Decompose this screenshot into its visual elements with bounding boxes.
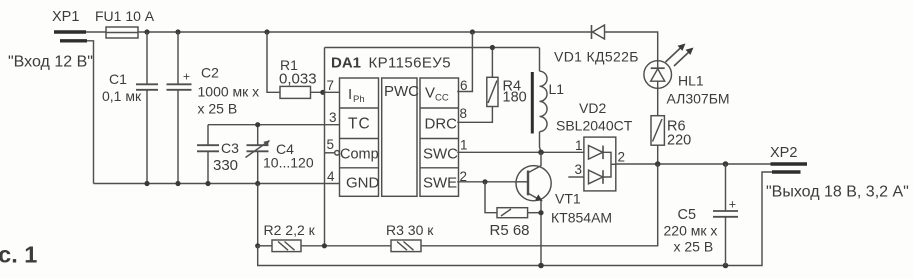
svg-text:3: 3 [575,162,583,177]
connector XP1 [52,9,87,41]
svg-text:КТ854АМ: КТ854АМ [551,210,612,226]
transistor Q1 : VT1 KT854AM [516,152,612,265]
svg-text:8: 8 [460,106,468,121]
svg-text:0,033: 0,033 [279,71,317,88]
svg-text:6: 6 [460,78,468,93]
wire VD1 to HL1 [605,32,658,61]
node top rail / C1 [144,29,149,34]
node mid rail / C2 [175,181,180,186]
svg-text:"Вход 12 В": "Вход 12 В" [8,54,93,71]
node emitter / R5 [538,210,543,215]
svg-text:"Выход 18 В, 3,2 А": "Выход 18 В, 3,2 А" [766,184,909,201]
svg-text:R2 2,2 к: R2 2,2 к [264,222,316,238]
resistor R4 [487,77,527,106]
svg-text:+: + [183,70,190,84]
svg-text:V: V [425,85,435,102]
svg-text:3: 3 [329,110,337,125]
svg-text:R3 30 к: R3 30 к [386,222,434,238]
fuse FU1 10 A [95,8,155,38]
node bottom rail / emitter [538,263,544,269]
node top rail / C2 [175,29,180,34]
wire supply line to L1 [539,48,541,72]
node output / R6 [655,161,661,167]
svg-text:1: 1 [460,138,468,153]
svg-text:ХР1: ХР1 [52,9,79,25]
svg-text:2: 2 [618,150,626,165]
wire SWE pin 2 to VT1 base [457,181,516,183]
DA1 left cell column [340,78,380,196]
svg-text:0,1 мк: 0,1 мк [102,88,142,104]
svg-text:СС: СС [435,93,449,104]
wire R3 to output feedback [421,164,658,246]
svg-text:1000 мк х: 1000 мк х [198,84,260,100]
svg-text:FU1 10 А: FU1 10 А [95,8,155,24]
svg-text:SWC: SWC [423,146,458,163]
svg-text:КР1156ЕУ5: КР1156ЕУ5 [369,55,451,72]
wire pin 3 TC to C3/C4 [208,124,340,126]
resistor R2 [258,222,316,252]
diode VD1 KD522B [554,25,639,65]
wire Vcc pin 6 to +12V rail [457,32,472,92]
svg-text:L1: L1 [549,81,565,97]
DA1 middle cell PWC [382,78,419,196]
node mid rail / C3 [205,181,210,186]
op-amp U1 : IC DA1 KR1156EU5 outline [325,48,540,153]
svg-text:АЛ307БМ: АЛ307БМ [667,91,730,107]
svg-text:С5: С5 [678,207,697,223]
node top rail / Vcc [470,29,475,34]
svg-text:С1: С1 [109,71,127,87]
svg-text:SBL2040CT: SBL2040CT [556,118,633,134]
wire R1 branch from +12V rail [267,32,280,92]
pin 5 inversion circle [335,151,340,156]
svg-text:7: 7 [327,78,335,93]
svg-text:х 25 В: х 25 В [674,239,714,255]
capacitor C5 (electrolytic) [664,164,739,266]
wire VD2 pin2 to output rail [616,163,771,165]
svg-text:VT1: VT1 [555,191,581,207]
node switch: L1 / VD2 pin1 / VT1 collector [538,150,544,156]
svg-text:х 25 В: х 25 В [198,101,238,117]
node base / R5 [482,179,487,184]
node Comp / R2 / R3 [322,243,327,248]
wire R5 to emitter [528,212,541,214]
wire R4 top to supply line [491,48,493,78]
node pin 7 junction [320,90,325,95]
svg-text:180: 180 [503,90,527,106]
DA1 pin numbers left [327,78,337,184]
wire ground bottom rail [258,172,772,266]
wire Comp feedback down to R2/R3 node [324,153,326,246]
node C4 top [255,122,260,127]
wire R1 to pin 7 [311,91,340,93]
node R2 left [255,243,260,248]
capacitor C1 [102,32,158,184]
DA1 pin numbers right [460,78,468,184]
wire R6 to output rail [657,145,659,164]
resistor R5 [490,208,530,239]
node R4 / supply line [490,45,495,50]
svg-text:С2: С2 [201,65,219,81]
node mid rail / C4 [255,181,260,186]
wire ground mid rail to pin 4 GND [94,183,340,185]
capacitor C3 [197,125,239,184]
wire +12V top rail [138,31,592,33]
svg-text:VD1 КД522Б: VD1 КД522Б [554,49,639,65]
svg-text:4: 4 [327,169,335,184]
wire base node down to R5 [485,182,497,213]
svg-text:GND: GND [346,175,380,192]
LED HL1 AL307BM [644,44,730,107]
capacitor C2 (electrolytic) [167,32,260,184]
wire HL1 to R6 [657,88,659,115]
svg-text:DA1: DA1 [331,55,361,72]
wire L1 to switch node [540,132,542,153]
wire pin 5 Comp stub [325,152,335,154]
inductor L1 [532,71,564,133]
wire R2 to Comp node [301,245,391,247]
wire SWC pin 1 to switch node [457,151,584,153]
wire VD2 pin3 stub [568,176,584,178]
node bottom rail / C5 [723,263,729,269]
svg-text:SWE: SWE [423,175,457,192]
svg-text:I: I [348,86,352,103]
svg-text:Рис. 1: Рис. 1 [0,242,37,268]
wire DRC pin 8 to R4 [457,107,492,123]
svg-text:HL1: HL1 [678,73,704,89]
resistor R3 [386,222,434,252]
node mid rail / C1 [144,181,149,186]
svg-text:С3: С3 [221,140,239,156]
svg-text:Ph: Ph [353,94,365,105]
svg-text:ТС: ТС [348,116,371,133]
svg-text:R5 68: R5 68 [490,222,530,239]
wire ground drop from mid rail to R2 [257,184,259,246]
svg-text:330: 330 [213,157,238,174]
svg-text:220 мк х: 220 мк х [664,223,718,239]
svg-text:PWC: PWC [384,83,419,100]
node output / C5 [723,161,729,167]
svg-text:Comp: Comp [340,147,379,163]
resistor R6 [651,116,691,149]
svg-text:10...120: 10...120 [263,155,314,171]
svg-text:+: + [729,198,736,212]
connector XP2 [770,145,807,172]
node top rail / R1 [264,29,269,34]
capacitor C4 (trimmer) [246,125,314,184]
DA1 right cell column [420,78,459,196]
dual diode VD2 SBL2040CT [556,100,633,191]
svg-text:5: 5 [327,137,335,152]
svg-text:1: 1 [575,138,583,153]
svg-text:220: 220 [667,133,691,149]
svg-text:VD2: VD2 [579,100,606,116]
resistor R1 [279,57,317,98]
wire XP1 pin1 to fuse [86,31,106,33]
svg-text:DRC: DRC [425,116,458,133]
svg-text:ХР2: ХР2 [770,145,797,161]
wire XP1 pin2 down to ground rail [87,41,94,184]
